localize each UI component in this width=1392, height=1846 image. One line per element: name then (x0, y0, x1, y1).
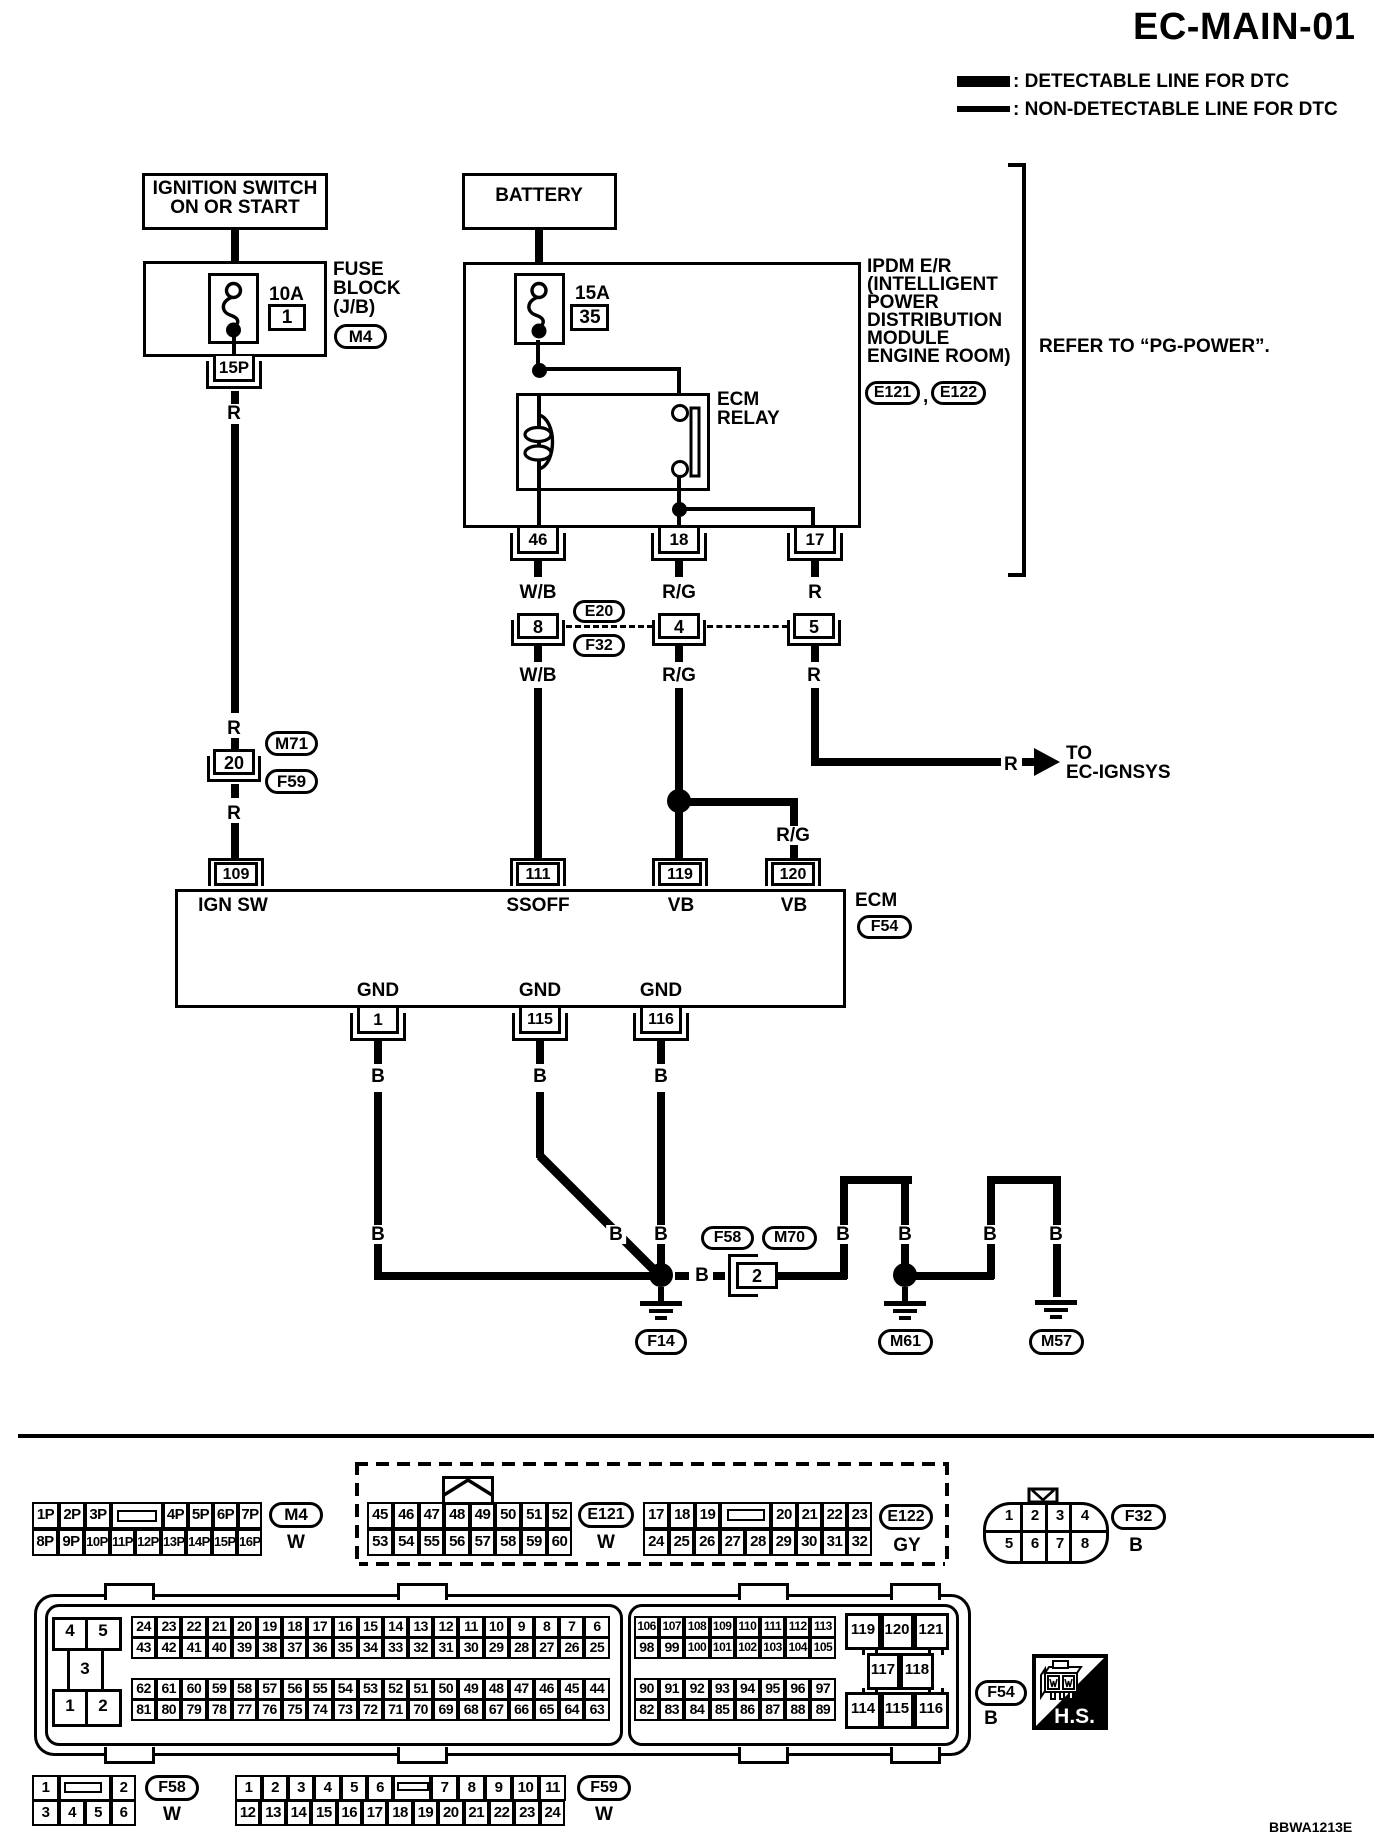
label W/B (520, 666, 557, 685)
wire riser up (B) (840, 1176, 848, 1279)
arrow dash (1022, 758, 1034, 766)
wire junction to relay contact (horizontal) (539, 367, 681, 371)
connector oval E121 (865, 381, 920, 405)
label GND pin 115 (519, 981, 561, 1000)
label R/G (662, 583, 696, 602)
label R at arrow (1004, 755, 1018, 774)
label R (807, 666, 821, 685)
fuse 10A symbol box (208, 273, 259, 344)
inline connector 5 (E20/F32) (787, 620, 841, 646)
connector oval E121 label (578, 1502, 634, 1528)
connector oval E122 label (879, 1504, 933, 1530)
wire relay output down to pin 18 (677, 509, 681, 528)
label W for M4 (287, 1533, 305, 1552)
wire branch junction to 120 column (679, 798, 794, 806)
fuse 15A symbol box (514, 273, 565, 345)
connector oval F54 label (975, 1680, 1027, 1706)
connector oval F59 (265, 769, 318, 794)
connector oval F32 harness (573, 634, 625, 657)
wire B pin116 down (657, 1092, 665, 1279)
inline connector 2 (F58/M70) (728, 1254, 758, 1297)
label B pin1 (371, 1067, 385, 1086)
label wire color R (227, 804, 241, 823)
connector oval E20 (573, 600, 625, 623)
wire stub below pin 18 (675, 560, 683, 577)
label R/G on branch (774, 826, 812, 845)
wire junction M61 to riser 3 (905, 1272, 994, 1280)
IPDM E/R box E121 E122 (463, 262, 861, 528)
label B riser4 (1046, 1225, 1066, 1244)
wire stub below connector 4 (675, 646, 683, 662)
wire B pin1 down (374, 1092, 382, 1279)
connector oval M71 (265, 731, 318, 756)
label wire color R (227, 404, 241, 423)
dashed group box E121 E122 (355, 1462, 949, 1566)
IPDM pin 46 (510, 533, 566, 561)
ground symbol M61 (902, 1287, 908, 1303)
label wire color R above connector 20 (227, 719, 241, 738)
ECM connector outer shell (34, 1594, 971, 1756)
relay contact circles and bar (660, 398, 708, 488)
label B on diagonal (606, 1225, 626, 1244)
label VB pin 119 (668, 896, 694, 915)
fuse 15A symbol (514, 273, 565, 345)
wire down to pin 17 (811, 507, 815, 528)
label B pin116 (654, 1067, 668, 1086)
label ECM RELAY (717, 390, 759, 409)
wire B pin1 horizontal to ground junction (374, 1272, 667, 1280)
connector E121 roof key (442, 1476, 494, 1505)
ECM connector shell tabs (104, 1583, 155, 1600)
ECM box F54 (175, 889, 846, 1008)
ECM pin 116 (633, 1013, 689, 1041)
dashed link connector 4 to 5 (707, 625, 788, 628)
label B on wire (368, 1225, 388, 1244)
label B riser2 (895, 1225, 915, 1244)
wire connector 2 to riser (776, 1272, 847, 1280)
label W for E121 (597, 1533, 615, 1552)
legend detectable line sample (957, 76, 1010, 87)
ECM pin 120 (765, 858, 821, 886)
fuse block J/B box M4 (143, 261, 327, 357)
connector oval M70 (762, 1226, 817, 1250)
label GND pin 116 (640, 981, 682, 1000)
label B on wire 116 (651, 1225, 671, 1244)
label W for F58 (163, 1805, 181, 1824)
wire W/B to ECM pin 111 (534, 688, 542, 859)
label B for F32 (1129, 1536, 1143, 1555)
wire stub below 15P (231, 391, 239, 404)
label ECM (855, 891, 897, 910)
separator line (18, 1434, 1374, 1438)
title EC-MAIN-01 (1133, 8, 1355, 46)
bracket refer to PG-POWER (1022, 163, 1026, 576)
inline connector 8 (E20/F32) (511, 620, 565, 646)
junction node ground M61 (893, 1263, 917, 1287)
ground oval M61 (878, 1329, 933, 1355)
label GY for E122 (893, 1536, 920, 1555)
connector oval M4 (334, 324, 387, 349)
block IGNITION SWITCH ON OR START (142, 173, 328, 230)
ECM connector key block pins 1-5 (52, 1617, 88, 1651)
wire relay contact to junction (677, 476, 681, 511)
wire R down to ECM pin 109 (231, 823, 239, 861)
ground symbol M57 (1035, 1300, 1077, 1305)
label B for F54 (984, 1709, 998, 1728)
label TO EC-IGNSYS (1066, 744, 1092, 763)
legend non-detectable line sample (957, 106, 1010, 112)
connector oval M4 label (269, 1502, 323, 1528)
connector oval F54 (857, 915, 912, 939)
ECM connector right grid rows (634, 1616, 836, 1638)
label B riser3 (980, 1225, 1000, 1244)
wire stub below connector 5 (811, 646, 819, 662)
wire fuse to 15P pin (232, 336, 236, 357)
wire B pin115 diagonal to junction (533, 1152, 666, 1282)
inline connector 4 (E20/F32) (652, 620, 706, 646)
inline connector 20 (M71/F59) (207, 756, 261, 782)
connector oval E122 (931, 381, 986, 405)
ECM connector left housing (45, 1604, 623, 1746)
label B riser1 (833, 1225, 853, 1244)
wire stub below pin 116 (657, 1041, 665, 1064)
connector M4 pinout grid (32, 1502, 262, 1529)
fuse 10A symbol (208, 273, 259, 344)
connector oval F59 label (577, 1775, 631, 1801)
fuse number box 1 (268, 304, 306, 331)
legend non-detectable text (1013, 100, 1338, 119)
label W for F59 (595, 1805, 613, 1824)
wire riser 3 up (987, 1176, 995, 1279)
wire B pin115 down (536, 1092, 544, 1158)
connector F32 pinout (oval connector) (983, 1502, 1109, 1564)
IPDM pin 17 (787, 533, 843, 561)
wire coil to relay box bottom (537, 468, 541, 528)
IPDM label text (867, 257, 951, 276)
connector oval F58 (701, 1226, 754, 1250)
ground symbol F14 (658, 1287, 664, 1303)
label R/G (662, 666, 696, 685)
junction node ground F14 (649, 1263, 673, 1287)
wire R horizontal to EC-IGNSYS (811, 758, 1001, 766)
ECM pin 109 (208, 858, 264, 886)
label 15A (575, 284, 610, 303)
ECM pin 1 (350, 1013, 406, 1041)
wire stub below pin 115 (536, 1041, 544, 1064)
wire stub below pin 17 (811, 560, 819, 577)
ECM connector large pins 119-121 (845, 1613, 881, 1650)
wire down to relay contact (677, 367, 681, 408)
ECM pin 115 (512, 1013, 568, 1041)
IPDM pin 18 (651, 533, 707, 561)
ECM connector large pins 114-116 (845, 1692, 881, 1729)
wire stub below connector 8 (534, 646, 542, 662)
wire stub below pin 46 (534, 560, 542, 577)
wire relay output to pin 17 (horizontal) (679, 507, 813, 511)
H.S. data link icon (1032, 1654, 1108, 1730)
label W/B (520, 583, 557, 602)
wire top bar 2 (987, 1176, 1060, 1184)
junction node VB (667, 789, 691, 813)
connector E121 pinout grid (367, 1502, 572, 1529)
ECM connector large pins 117-118 (867, 1653, 900, 1690)
label IGN SW (198, 896, 268, 915)
wire stub below pin 1 (374, 1041, 382, 1064)
label GND pin 1 (357, 981, 399, 1000)
wire riser down to M61 junction (901, 1176, 909, 1279)
fuse number box 35 (570, 304, 609, 331)
connector F59 pinout grid (235, 1775, 566, 1801)
wire branch down to ECM pin 120 (790, 798, 798, 859)
ground oval F14 (635, 1329, 687, 1355)
relay coil (537, 393, 541, 468)
label R (808, 583, 822, 602)
dashed link connector 8 to 4 (566, 625, 653, 628)
ground oval M57 (1029, 1329, 1084, 1355)
label 10A (269, 285, 304, 304)
connector oval F58 label (145, 1775, 199, 1801)
wire ignition switch to fuse block (thick R) (231, 230, 239, 286)
dashed wire to connector 2 (675, 1272, 689, 1280)
figure code BBWA1213E (1269, 1820, 1352, 1834)
label REFER TO PG-POWER (1039, 337, 1270, 356)
wire R from connector 5 down (811, 688, 819, 765)
wire R/G to ECM pin 119 (675, 688, 683, 859)
ECM pin 119 (652, 858, 708, 886)
pin 15P of fuse block (206, 361, 262, 389)
wire top bar 1 (840, 1176, 912, 1184)
label B at connector 2 (695, 1266, 709, 1285)
connector E122 pinout grid (643, 1502, 872, 1529)
label VB pin 120 (781, 896, 807, 915)
ECM relay box (516, 393, 710, 491)
label SSOFF (506, 896, 569, 915)
label FUSE BLOCK (J/B) (333, 260, 384, 279)
legend detectable text (1013, 72, 1289, 91)
wire stub below connector 20 (231, 784, 239, 798)
connector F58 pinout grid (32, 1775, 136, 1801)
wire R down to connector 20 (231, 424, 239, 713)
wire riser 4 down to ground M57 (1053, 1176, 1061, 1297)
wire battery to fuse 35 (thick) (535, 230, 543, 286)
label B pin115 (533, 1067, 547, 1086)
junction node below fuse 35 (532, 363, 547, 378)
connector oval F32 label (1111, 1504, 1166, 1530)
connector F32 key bump (1026, 1487, 1060, 1505)
arrow to EC-IGNSYS (1034, 748, 1060, 776)
svg-text:H.S.: H.S. (1054, 1705, 1095, 1728)
block BATTERY (462, 173, 617, 230)
wire fuse 35 to junction (536, 340, 540, 370)
junction node relay output (672, 502, 687, 517)
ECM pin 111 (510, 858, 566, 886)
ECM connector right housing (628, 1604, 959, 1746)
ECM connector left grid rows (131, 1616, 610, 1638)
wire stub above connector 20 (231, 738, 239, 750)
